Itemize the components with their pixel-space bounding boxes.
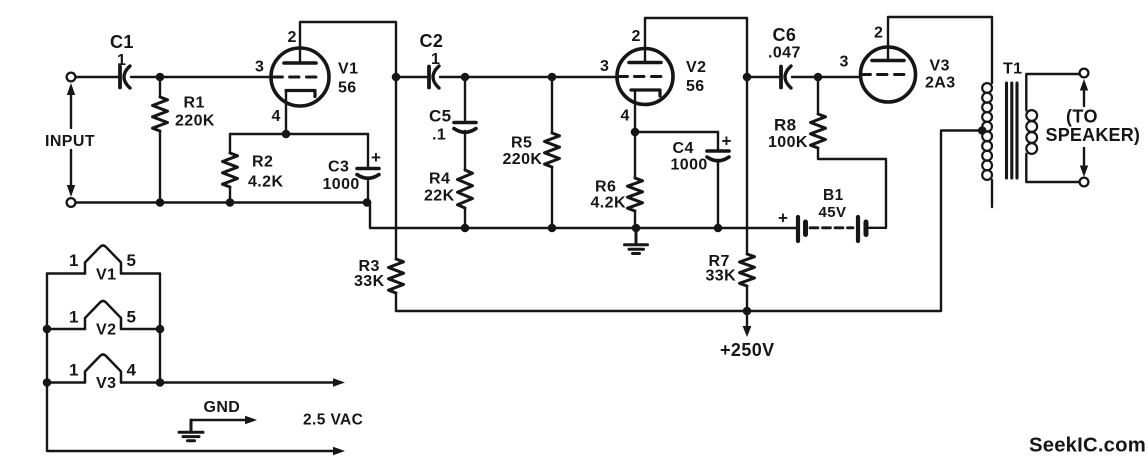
V2 plate xyxy=(629,61,661,65)
wire R1 leads xyxy=(159,77,161,203)
svg-text:V1: V1 xyxy=(338,61,358,78)
V1 plate xyxy=(284,61,316,65)
wire input top to C1 xyxy=(75,76,118,78)
svg-text:R5: R5 xyxy=(511,135,532,152)
V3 grid xyxy=(861,73,904,76)
wire C2 to V2 grid pin 3 xyxy=(440,76,618,78)
svg-text:1: 1 xyxy=(431,51,440,68)
heater row arrowhead xyxy=(333,378,345,387)
svg-text:33K: 33K xyxy=(354,273,385,290)
svg-text:4: 4 xyxy=(272,108,281,125)
wire plate supply line down to R3 xyxy=(395,77,397,259)
wire C4 leads xyxy=(717,132,719,228)
resistor R7 33K xyxy=(740,254,755,286)
resistor R3 33K xyxy=(389,259,404,293)
triode tube V1 envelope xyxy=(271,48,329,106)
svg-text:R6: R6 xyxy=(595,179,616,196)
wire R3 bottom to +250V rail xyxy=(395,293,397,311)
resistor R6 4.2K xyxy=(628,178,643,211)
svg-text:100K: 100K xyxy=(768,134,808,151)
svg-text:2: 2 xyxy=(632,28,641,45)
wire heater row V2 xyxy=(47,328,160,330)
svg-text:1: 1 xyxy=(69,361,79,380)
svg-text:+: + xyxy=(371,148,381,167)
filament V1 xyxy=(85,246,121,274)
ground symbol stage 2 xyxy=(625,228,648,254)
wire C6 node to C6 xyxy=(747,76,780,78)
svg-text:C5: C5 xyxy=(429,107,452,126)
svg-text:1: 1 xyxy=(69,308,79,327)
wire secondary to speaker terminals xyxy=(1026,74,1079,182)
wire heater left bus and bottom 2.5VAC line xyxy=(47,274,335,452)
wire C1 to V1 grid pin 3 xyxy=(131,76,272,78)
svg-text:R8: R8 xyxy=(774,116,797,135)
wire V2 plate pin 2 to C6 node xyxy=(645,18,747,77)
svg-text:3: 3 xyxy=(600,58,609,75)
input terminals xyxy=(67,73,76,82)
resistor R1 220K xyxy=(153,97,168,131)
wire pin4 rail to C4 xyxy=(635,131,718,133)
svg-text:2: 2 xyxy=(288,29,297,46)
+250V arrowhead xyxy=(743,326,752,337)
svg-text:56: 56 xyxy=(338,80,357,97)
V2 cathode xyxy=(631,90,660,96)
transformer T1 primary bottom stub xyxy=(991,180,993,207)
svg-text:4.2K: 4.2K xyxy=(248,173,283,190)
wire R6 leads xyxy=(634,132,636,228)
svg-text:+250V: +250V xyxy=(720,340,775,360)
svg-text:220K: 220K xyxy=(503,151,543,168)
V2 grid xyxy=(618,75,661,78)
svg-text:56: 56 xyxy=(686,78,705,95)
speaker arrowheads xyxy=(1080,79,1088,91)
wire R5 leads xyxy=(551,77,553,228)
V1 grid xyxy=(273,76,316,79)
svg-text:V2: V2 xyxy=(686,59,706,76)
wire +250V rail to transformer tap xyxy=(396,131,981,312)
svg-text:33K: 33K xyxy=(706,268,737,285)
capacitor C3 plates xyxy=(357,167,379,171)
battery B1 45V plates xyxy=(796,217,800,241)
V1 cathode xyxy=(286,91,315,97)
svg-text:5: 5 xyxy=(127,308,137,327)
wire C5 R4 chain xyxy=(464,77,466,228)
resistor R2 4.2K xyxy=(223,153,238,187)
svg-text:+: + xyxy=(778,209,788,228)
svg-text:(TO: (TO xyxy=(1066,107,1098,127)
resistor R4 22K xyxy=(458,170,473,208)
resistor R5 220K xyxy=(545,133,560,167)
svg-text:B1: B1 xyxy=(823,187,844,204)
wire V2 cathode pin 4 lead xyxy=(634,90,636,132)
speaker arrow shafts xyxy=(1083,90,1085,166)
speaker terminals xyxy=(1080,69,1089,78)
filament V2 xyxy=(85,301,121,329)
ground symbol GND heater xyxy=(179,420,203,441)
wire GND arrow shaft xyxy=(191,419,247,421)
capacitor C4 plates xyxy=(707,149,729,153)
svg-text:45V: 45V xyxy=(819,204,847,221)
svg-text:2A3: 2A3 xyxy=(925,75,956,92)
GND arrowhead xyxy=(245,416,257,425)
svg-text:1: 1 xyxy=(117,52,126,69)
transformer T1 primary winding xyxy=(982,83,992,180)
wire C3 leads xyxy=(367,134,369,203)
capacitor C6 plates xyxy=(779,67,783,88)
transformer T1 secondary winding xyxy=(1026,110,1037,154)
svg-text:22K: 22K xyxy=(424,188,455,205)
wire V2 plate line down to R7 xyxy=(746,77,748,254)
svg-text:1000: 1000 xyxy=(671,156,708,173)
svg-text:220K: 220K xyxy=(175,112,215,129)
svg-text:C2: C2 xyxy=(420,31,444,51)
svg-text:4.2K: 4.2K xyxy=(591,195,626,212)
svg-text:.047: .047 xyxy=(768,45,801,62)
svg-text:3: 3 xyxy=(255,59,264,76)
resistor R8 100K xyxy=(811,114,826,148)
wire V1 plate pin 2 to C2 node xyxy=(300,22,396,77)
svg-text:INPUT: INPUT xyxy=(45,133,95,150)
svg-text:C4: C4 xyxy=(673,140,694,157)
heater bottom arrowhead xyxy=(333,447,345,456)
svg-text:2.5 VAC: 2.5 VAC xyxy=(303,412,363,429)
svg-text:1000: 1000 xyxy=(323,176,360,193)
svg-text:V2: V2 xyxy=(96,322,116,339)
wire bottom ground rail xyxy=(75,203,796,229)
svg-text:R4: R4 xyxy=(429,171,450,188)
wire R8 leads to battery xyxy=(818,77,886,228)
filament V3 xyxy=(85,355,121,383)
svg-text:V3: V3 xyxy=(930,58,950,75)
svg-text:C1: C1 xyxy=(110,32,134,52)
svg-text:T1: T1 xyxy=(1003,61,1022,78)
svg-text:4: 4 xyxy=(621,108,630,125)
wire heater row V1 xyxy=(47,272,160,274)
svg-text:2: 2 xyxy=(874,25,883,42)
wire R7 bottom to +250V rail xyxy=(746,286,748,311)
svg-text:GND: GND xyxy=(204,399,241,416)
V3 plate xyxy=(872,59,904,63)
svg-text:V3: V3 xyxy=(96,375,116,392)
svg-text:5: 5 xyxy=(127,251,137,270)
svg-text:R1: R1 xyxy=(184,95,205,112)
battery B1 dashed link xyxy=(810,226,853,229)
wire R2 leads xyxy=(229,134,231,203)
wire heater row V3 and 2.5VAC line xyxy=(47,381,335,383)
junction dots xyxy=(156,73,165,82)
wire C2 node to C2 xyxy=(396,76,428,78)
wire V3 plate pin 2 to T1 primary xyxy=(888,17,992,83)
triode tube V2 envelope xyxy=(617,49,673,105)
svg-text:SPEAKER): SPEAKER) xyxy=(1046,125,1141,145)
capacitor C1 plates xyxy=(118,67,122,88)
svg-text:C3: C3 xyxy=(328,158,349,175)
wire +250V arrow shaft xyxy=(746,311,748,328)
svg-text:3: 3 xyxy=(840,54,849,71)
capacitor C2 plates xyxy=(427,67,431,88)
wire pin4 rail to R2 and C3 xyxy=(230,133,368,135)
svg-text:.1: .1 xyxy=(432,127,446,144)
svg-text:R2: R2 xyxy=(252,153,273,170)
input arrow shaft xyxy=(70,87,72,191)
wire heater right bus xyxy=(159,274,161,383)
wire C6 to V3 grid pin 3 xyxy=(792,76,861,78)
wire V1 cathode pin 4 lead xyxy=(285,91,287,135)
svg-text:SeekIC.com: SeekIC.com xyxy=(1029,435,1146,457)
capacitor C5 plates xyxy=(454,121,476,125)
svg-text:1: 1 xyxy=(69,251,79,270)
svg-text:C6: C6 xyxy=(773,25,797,45)
svg-text:V1: V1 xyxy=(96,267,116,284)
svg-text:+: + xyxy=(722,132,732,151)
triode tube V3 envelope xyxy=(861,47,916,102)
transformer T1 core xyxy=(1007,83,1018,178)
input arrowheads xyxy=(67,83,75,95)
svg-text:4: 4 xyxy=(127,361,137,380)
